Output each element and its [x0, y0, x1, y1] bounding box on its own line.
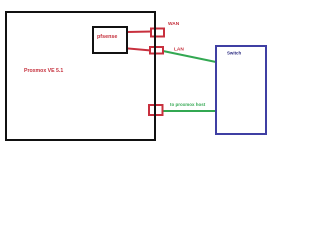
- svg-text:pfsense: pfsense: [97, 34, 117, 40]
- svg-text:LAN: LAN: [174, 47, 184, 53]
- wire pfsense to WAN port: [126, 31, 152, 34]
- svg-text:Proxmox VE 5.1: Proxmox VE 5.1: [24, 68, 63, 74]
- wire LAN to switch: [163, 51, 216, 62]
- proxmox host port: [149, 105, 163, 115]
- Switch box: [216, 46, 266, 134]
- WAN port: [151, 29, 164, 37]
- wire proxmox host port to switch: [162, 110, 216, 112]
- Proxmox host box: [6, 12, 155, 140]
- wire pfsense to LAN port: [126, 48, 151, 50]
- svg-text:WAN: WAN: [168, 21, 180, 27]
- LAN port: [150, 47, 163, 54]
- pfsense VM box: [93, 27, 127, 53]
- svg-text:Switch: Switch: [227, 50, 241, 55]
- svg-text:to proxmox host: to proxmox host: [170, 102, 206, 107]
